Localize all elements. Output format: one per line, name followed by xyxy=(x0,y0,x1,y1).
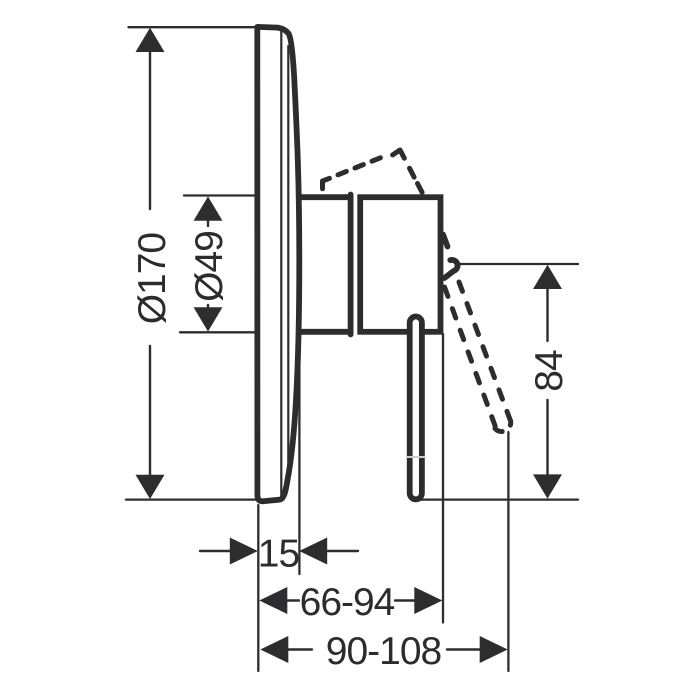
plate rim profile line xyxy=(287,46,289,481)
arrow O170 down xyxy=(136,475,165,499)
dimension 15 xyxy=(200,550,233,552)
arrow 84 up xyxy=(533,265,562,289)
svg-text:15: 15 xyxy=(258,533,300,576)
sleeve section behind plate xyxy=(296,195,351,335)
hub pivot hook xyxy=(445,260,458,278)
hub stub upper xyxy=(443,235,448,247)
baseline right segment xyxy=(413,498,578,500)
dashed lever tip cap xyxy=(495,421,511,432)
extension line top (plate top to dim) xyxy=(129,26,257,28)
extension line O49 top xyxy=(184,194,256,196)
svg-text:Ø49: Ø49 xyxy=(188,231,231,302)
84 top reference line xyxy=(458,263,578,265)
extension vertical plate-left xyxy=(257,505,259,671)
dimension 90-108 xyxy=(260,636,288,663)
dimension O49 line xyxy=(207,219,209,226)
cartridge body xyxy=(360,197,440,332)
extension line O49 bottom xyxy=(180,331,256,333)
extension vertical plate-right xyxy=(298,352,300,574)
dashed lever rotated edge left xyxy=(445,287,496,427)
escutcheon plate xyxy=(257,27,299,501)
svg-text:Ø170: Ø170 xyxy=(131,233,174,325)
svg-text:90-108: 90-108 xyxy=(326,630,441,673)
lever joint faint line xyxy=(407,456,425,458)
plate face inner line xyxy=(280,30,282,496)
arrow O170 up xyxy=(136,28,165,52)
arrow O49 up xyxy=(194,197,223,221)
dimension 66-94 xyxy=(259,587,287,614)
dashed lever rotated edge right xyxy=(459,282,510,420)
extension vertical body-right xyxy=(442,334,444,623)
arrow 84 down xyxy=(533,474,562,498)
svg-text:84: 84 xyxy=(528,350,571,392)
arrow O49 down xyxy=(194,307,223,331)
dimension O170 line xyxy=(149,50,151,209)
dashed handle raised outline xyxy=(323,150,423,192)
dimension 84 line xyxy=(546,287,548,341)
extension vertical lever-tip xyxy=(507,432,509,671)
extension line bottom-left baseline xyxy=(126,498,256,500)
svg-text:66-94: 66-94 xyxy=(300,581,395,624)
lever handle xyxy=(410,317,422,500)
